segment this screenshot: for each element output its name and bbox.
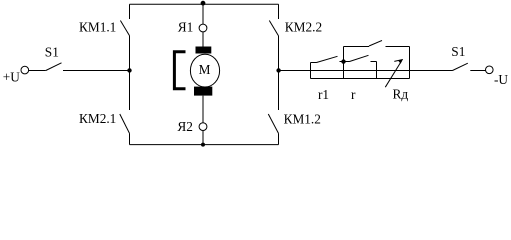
arrowhead Rd	[398, 59, 403, 63]
svg-text:Rд: Rд	[393, 86, 409, 101]
node bottom junction	[201, 143, 205, 147]
resistor r1 box	[311, 63, 410, 79]
resistor divider r1/r	[343, 47, 345, 79]
wire Ya2 to bottom bus	[202, 131, 204, 145]
wire bypass rail	[344, 46, 370, 48]
node top junction	[201, 1, 206, 6]
svg-text:S1: S1	[45, 44, 59, 59]
svg-text:КМ1.1: КМ1.1	[79, 20, 116, 35]
svg-text:Я1: Я1	[178, 19, 194, 34]
switch S1 left	[29, 63, 62, 71]
wire +U feeder to node	[63, 70, 130, 72]
arrow Rd adjustment	[385, 61, 402, 88]
terminal +U circle	[21, 66, 29, 74]
motor bracket	[174, 52, 185, 89]
svg-text:КМ2.2: КМ2.2	[285, 20, 322, 35]
motor M armature circle	[190, 54, 219, 87]
svg-text:М: М	[199, 62, 211, 77]
wire bypass landing	[386, 46, 410, 48]
contact KM2.2	[269, 4, 278, 70]
wire landing to node	[340, 61, 344, 63]
node resistor junction	[341, 59, 345, 63]
motor brush top	[196, 47, 212, 54]
wire main horizontal to resistors	[279, 70, 453, 72]
contact KM2.1	[120, 71, 130, 145]
node right junction	[276, 68, 280, 72]
svg-text:Я2: Я2	[177, 119, 193, 134]
svg-text:КМ1.2: КМ1.2	[284, 111, 321, 126]
svg-text:КМ2.1: КМ2.1	[79, 111, 116, 126]
resistor Rd right edge	[409, 47, 411, 79]
switch S1 right	[453, 63, 486, 70]
wire armature lead brush to Ya2	[202, 96, 204, 123]
svg-text:r: r	[351, 87, 356, 102]
svg-text:S1: S1	[451, 44, 465, 59]
contact blade bypass	[369, 41, 382, 47]
terminal -U circle	[486, 66, 494, 74]
wire armature lead to brush	[202, 32, 204, 47]
motor brush bottom	[194, 87, 212, 96]
resistor divider r/Rd	[376, 62, 378, 79]
wire armature top lead	[202, 4, 204, 24]
contact KM1.2	[268, 71, 278, 145]
svg-text:-U: -U	[494, 72, 508, 87]
svg-text:r1: r1	[318, 87, 329, 102]
contact blade over r1	[317, 56, 338, 62]
node left junction	[127, 68, 131, 72]
wire top bus	[130, 3, 279, 5]
terminal Ya1 circle	[199, 24, 207, 32]
svg-text:+U: +U	[3, 70, 20, 85]
wire bottom bus	[130, 144, 279, 146]
contact blade over r	[344, 55, 377, 61]
contact KM1.1	[120, 4, 129, 70]
terminal Ya2 circle	[199, 123, 207, 131]
